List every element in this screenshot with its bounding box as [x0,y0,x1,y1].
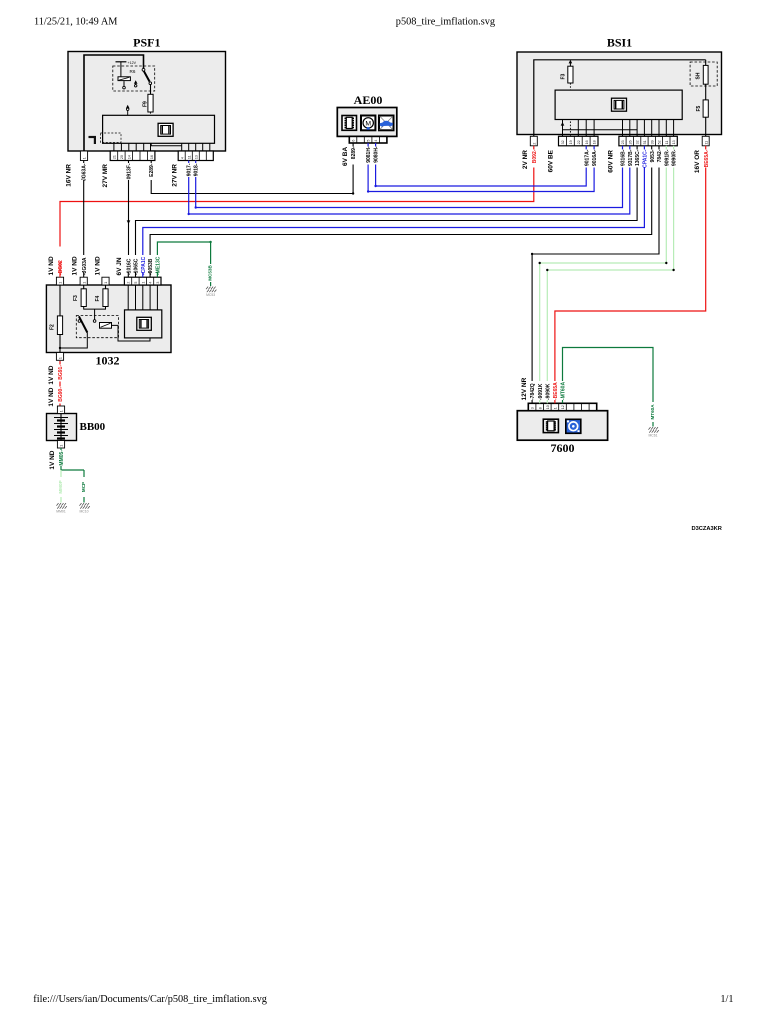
BB00 battery symbol [60,414,62,441]
svg-text:51: 51 [643,140,647,144]
svg-text:D3CZA3KR: D3CZA3KR [692,526,722,532]
svg-text:10: 10 [546,405,550,409]
svg-text:1: 1 [83,157,87,159]
svg-text:F2: F2 [50,324,56,330]
BSI1 right internal wire to pin 11 [705,84,707,100]
svg-text:5: 5 [367,140,371,142]
svg-text:M: M [365,120,371,127]
svg-text:1V ND: 1V ND [48,387,55,406]
svg-text:27V NR: 27V NR [171,164,178,187]
BSI1 ECU connector icon [612,98,627,111]
svg-text:+12V: +12V [128,61,137,65]
svg-text:F3: F3 [561,73,567,79]
svg-text:2V NR: 2V NR [522,150,529,169]
svg-text:CPA1C-: CPA1C- [643,149,649,168]
relay pivot wire to fuse F2 column [60,333,87,349]
7600 camera icon [566,419,581,433]
wire BE65A BSI1 to 7600 (red) [705,146,707,150]
svg-text:1V ND: 1V ND [95,256,102,275]
svg-text:13: 13 [672,140,676,144]
1032 internal ECU box [125,310,162,338]
svg-text:1/1: 1/1 [720,994,733,1005]
AE00 pin strip [349,136,387,143]
svg-text:-7842Q: -7842Q [530,383,536,400]
PSF1 ECU connector icon [158,123,173,136]
svg-text:22: 22 [577,140,581,144]
PSF1 internal ground icon [89,136,97,138]
svg-text:12: 12 [561,405,565,409]
+12V supply symbol for relay coil [116,61,127,63]
svg-text:-ME13C: -ME13C [156,256,162,275]
fuse F3 in BSI1 [569,62,571,66]
svg-text:MC10: MC10 [79,509,88,513]
svg-text:MCP: MCP [81,482,86,492]
BSI1 junction arrow at fuse F3 [569,60,573,64]
svg-text:8: 8 [538,407,542,409]
wire 9080H AE00 to BSI1 9017A (blue) [375,143,377,147]
svg-text:11: 11 [187,155,191,159]
svg-text:4: 4 [374,140,378,142]
svg-text:0913F-: 0913F- [127,163,133,179]
BSI1 internal top bus wire [534,60,706,137]
ground MM01 [56,503,58,506]
svg-text:SH: SH [696,72,702,79]
svg-text:1V ND: 1V ND [48,365,55,384]
wire 9090R/9090K BSI1 to 7600 (pale green) [673,146,675,150]
svg-text:32: 32 [636,140,640,144]
ground MC53 [206,287,208,290]
box 7600 (tire pressure module) [517,411,607,441]
svg-text:11/25/21, 10:49 AM: 11/25/21, 10:49 AM [34,17,117,28]
PSF1 internal bus pin2E to pin4 [151,143,182,145]
svg-text:2: 2 [532,143,536,145]
svg-text:file:///Users/ian/Documents/Ca: file:///Users/ian/Documents/Car/p508_tir… [33,994,267,1005]
svg-text:11: 11 [665,141,669,145]
svg-text:9081H-: 9081H- [366,146,372,163]
wire E289/8289 PSF1 to AE00 [150,161,152,164]
junction arrow on 0913F wire [127,220,131,224]
relay contact from fuses [94,309,96,320]
AE00 motor icon [361,116,375,131]
svg-text:13: 13 [194,155,198,159]
svg-text:3: 3 [156,282,160,284]
svg-text:1: 1 [60,445,64,447]
wire 9017/9317B PSF1 to BSI1 (blue) [188,161,190,164]
svg-text:4: 4 [149,282,153,284]
svg-text:1: 1 [60,410,64,412]
wire MT60A 7600 to ground MC61 (green) [562,400,564,403]
relay R6 second contact [135,85,137,87]
1032 ECU pin stubs [127,285,129,310]
svg-text:1: 1 [104,282,108,284]
svg-text:1: 1 [59,357,63,359]
PSF1 pin 1 [80,151,87,161]
wire BB00 to ground (green) [60,448,62,450]
PSF1 right pin group 27V NR [178,151,213,161]
svg-text:-MT60A: -MT60A [561,382,567,400]
svg-text:-JG03A: -JG03A [82,257,88,275]
svg-text:7842-: 7842- [657,149,663,162]
1032 pin 1 [56,277,63,285]
BSI1 pin 2 [530,136,537,146]
svg-text:1: 1 [141,282,145,284]
svg-text:19: 19 [569,140,573,144]
wire 9018/9316B PSF1 to BSI1 (blue) [195,161,197,164]
svg-text:1: 1 [59,282,63,284]
junction at 8289 corner [352,192,354,194]
wire ME13C 1032 to ground MC53 (green) [156,272,158,277]
svg-text:2: 2 [127,282,131,284]
relay in 1032 (dashed box) [76,316,118,338]
svg-text:1V ND: 1V ND [49,450,56,469]
svg-text:-BG02: -BG02 [58,260,64,275]
svg-text:-9091K: -9091K [538,383,544,400]
PSF1 ECU pin symbol arrow [127,111,129,116]
svg-text:9316B-: 9316B- [621,149,627,166]
svg-text:1V ND: 1V ND [72,256,79,275]
wire B092/BG02 red bus BSI1 to 1032 [533,146,535,150]
svg-text:1: 1 [554,407,558,409]
box BSI1 (body control unit) [517,52,722,135]
svg-text:14: 14 [127,155,131,159]
PSF1 internal dashed stub [101,133,122,143]
dotted wire F3 to pin 19 [569,83,571,136]
relay coil in 1032 [100,323,112,329]
SH shunt fuse [705,60,707,66]
box PSF1 (engine fuse box) [68,52,226,152]
7600 chip icon [543,419,558,432]
fuse F5 in BSI1 [703,100,708,117]
svg-text:BE65A-: BE65A- [704,149,710,167]
fuse F9 [148,94,153,112]
wire branch to grounds [61,469,84,471]
svg-text:F3: F3 [73,295,79,301]
wire switch to fuse F9 [150,85,152,95]
svg-text:7600: 7600 [551,441,575,455]
svg-text:BG91-: BG91- [58,365,64,380]
wire 9091R/9091K BSI1 to 7600 (pale green) [665,146,667,150]
svg-text:1365C-: 1365C- [635,149,641,166]
svg-text:9090R-: 9090R- [672,149,678,166]
svg-text:1: 1 [82,282,86,284]
svg-text:-9090K: -9090K [545,383,551,400]
svg-text:11: 11 [704,141,708,145]
svg-text:20: 20 [120,155,124,159]
ground MC10 [79,503,81,506]
wire 1065C/1365C 1032 to BSI1 [135,272,137,277]
svg-text:26: 26 [628,140,632,144]
BB00 bottom pin [57,441,64,449]
svg-text:9091R-: 9091R- [664,149,670,166]
shunt SH dashed box in BSI1 [690,62,717,86]
svg-text:1V ND: 1V ND [48,256,55,275]
PSF1 left pin group 27V MR [110,151,155,161]
BSI1 pin group 60V NR [619,136,677,146]
svg-text:27V MR: 27V MR [102,164,109,188]
svg-text:3: 3 [531,407,535,409]
svg-text:9080H-: 9080H- [374,146,380,163]
svg-text:12V NR: 12V NR [521,377,528,400]
svg-text:E289-: E289- [149,163,155,177]
svg-text:-9053B: -9053B [148,258,154,275]
svg-text:16: 16 [585,140,589,144]
svg-text:MM05-: MM05- [59,450,65,466]
1032 bottom pin [56,353,63,361]
svg-text:4: 4 [180,157,184,159]
svg-text:PSF1: PSF1 [133,36,160,50]
relay R6 switch contact and arm [142,68,145,71]
svg-text:6V BA: 6V BA [342,147,349,166]
svg-text:BB00: BB00 [80,421,106,433]
wire 9053B/9053 1032 to BSI1 [149,272,151,277]
svg-text:32: 32 [561,140,565,144]
fuse F3 in 1032 [83,285,85,289]
svg-text:9017-: 9017- [187,163,193,176]
BSI1 internal ECU box [555,90,682,119]
svg-text:9018-: 9018- [194,163,200,176]
7600 pin strip [528,403,596,410]
wire 9081H AE00 to BSI1 9016A (blue) [367,143,369,147]
svg-text:39: 39 [650,140,654,144]
BSI1 pin 11 [702,136,709,146]
svg-text:6V JN: 6V JN [116,257,123,275]
BSI1 internal bus pin32 to pin32 [563,122,638,130]
svg-text:-BE65A: -BE65A [553,382,559,400]
wire coil to ECU [112,325,151,341]
AE00 envelope-car icon [379,116,394,131]
BB00 top pin [57,406,64,414]
1032 pin 2 [80,277,87,285]
PSF1 ECU pin stubs [113,143,115,151]
svg-text:F4: F4 [95,295,101,301]
svg-text:MT60A: MT60A [650,404,655,420]
relay switch contact and arm [78,320,81,323]
svg-text:F5: F5 [696,105,702,111]
BSI1 pin group 60V BE [559,136,599,146]
relay R6 coil [118,77,130,81]
svg-text:5: 5 [134,282,138,284]
svg-text:MM0P: MM0P [58,480,63,493]
wire 0913F/1016C PSF1 to 1032 [128,161,130,164]
1032 pin group 6V JN [124,277,161,285]
svg-text:60V BE: 60V BE [547,149,554,172]
svg-text:6: 6 [352,140,356,142]
svg-text:p508_tire_imflation.svg: p508_tire_imflation.svg [396,17,495,28]
svg-text:BG90-: BG90- [58,387,64,402]
svg-text:9016A-: 9016A- [592,149,598,166]
svg-text:8289-: 8289- [351,146,357,159]
1032 ECU connector icon [137,317,152,330]
svg-text:9017A-: 9017A- [584,149,590,166]
svg-text:F9: F9 [143,101,149,107]
PSF1 internal ECU box [103,115,215,143]
svg-text:R6: R6 [130,69,136,74]
1032 pin 3 [102,277,109,285]
svg-text:B092-: B092- [532,149,538,163]
wire 7842/7842Q BSI1 to 7600 [658,146,660,150]
svg-text:MC61: MC61 [648,433,657,437]
svg-text:9053-: 9053- [650,149,656,162]
AE00 chip icon [342,116,357,131]
wire CPA1C 1032 to BSI1 (blue) [142,272,144,277]
relay R6 in PSF1 (dashed box) [113,66,155,91]
box AE00 (air compressor unit) [337,108,397,137]
svg-text:MM01: MM01 [56,509,66,513]
wire joining F3 and F4 [84,307,106,310]
svg-text:1032: 1032 [96,354,120,368]
svg-text:BSI1: BSI1 [607,36,632,50]
svg-text:AE00: AE00 [354,93,383,107]
svg-text:-1016C: -1016C [126,258,132,275]
svg-text:23: 23 [621,140,625,144]
svg-text:16V NR: 16V NR [65,164,72,187]
PSF1 internal wire from pin 1 to relay [84,55,144,151]
svg-text:9317B-: 9317B- [628,149,634,166]
svg-text:52: 52 [658,140,662,144]
BSI1 ECU pin stubs [562,120,564,137]
svg-text:MC53: MC53 [206,293,215,297]
wire 1032 to BB00 (red) [59,361,61,365]
fuse F4 in 1032 [105,285,107,289]
svg-text:MC53B: MC53B [208,265,213,281]
dotted wire F9 to pin row [150,112,152,143]
svg-text:-1065C: -1065C [134,258,140,275]
svg-text:-CPA1C: -CPA1C [141,256,147,275]
svg-text:JG63A-: JG63A- [82,163,88,181]
wire JG63A/JG03A PSF1 to 1032 [83,161,85,164]
fuse F2 in 1032 [59,285,61,316]
svg-text:60V NR: 60V NR [607,150,614,173]
box 1032 (engine relay unit) [46,285,171,353]
ground MC61 [648,427,650,430]
svg-text:21: 21 [113,155,117,159]
svg-text:16V OR: 16V OR [694,150,701,173]
svg-text:18: 18 [593,140,597,144]
svg-text:16: 16 [150,155,154,159]
